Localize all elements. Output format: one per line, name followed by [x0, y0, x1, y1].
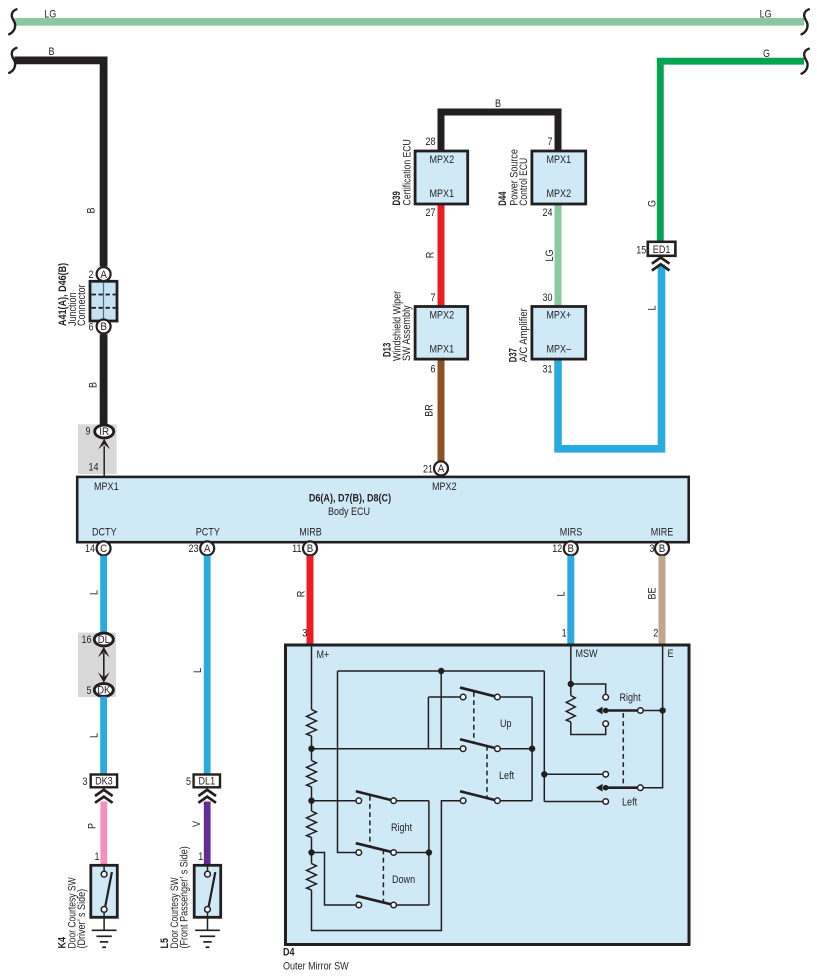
junction E bus	[659, 707, 665, 713]
svg-text:A: A	[438, 463, 445, 475]
double arrow between DL and DK	[98, 647, 110, 658]
svg-text:MPX+: MPX+	[546, 310, 571, 322]
dashed link Down	[382, 850, 384, 902]
wire top bus	[338, 670, 545, 672]
wire L (DCTY lower)	[100, 697, 107, 775]
svg-text:B: B	[568, 543, 575, 555]
contact Down left	[356, 902, 362, 908]
svg-text:30: 30	[543, 292, 553, 304]
wire LG (D44 pin 24 to D37 pin 30)	[555, 204, 562, 307]
svg-text:MPX1: MPX1	[547, 154, 572, 166]
svg-text:LG: LG	[544, 250, 556, 262]
svg-text:3: 3	[302, 628, 307, 640]
gray connector zone DL/DK	[78, 633, 116, 698]
svg-text:SW Assembly: SW Assembly	[401, 305, 413, 361]
svg-text:LG: LG	[760, 9, 772, 21]
svg-text:2: 2	[89, 269, 94, 281]
svg-text:11: 11	[292, 543, 301, 555]
pin circle 21 A (top)	[434, 461, 448, 475]
svg-text:MPX2: MPX2	[430, 310, 455, 322]
svg-text:R: R	[295, 591, 307, 598]
wire MSW lead	[570, 647, 572, 696]
svg-text:Down: Down	[392, 874, 415, 886]
wire Right block right bus	[397, 800, 429, 802]
junction top bus	[438, 668, 444, 674]
svg-text:E: E	[668, 648, 674, 660]
pin circle 12 B	[564, 541, 578, 555]
svg-text:D6(A), D7(B), D8(C): D6(A), D7(B), D8(C)	[309, 493, 391, 505]
svg-text:MIRE: MIRE	[651, 527, 674, 539]
switch lever Up row1	[460, 688, 497, 697]
contact Right row1 left	[356, 798, 362, 804]
break symbol left of LG wire	[9, 9, 16, 34]
arrow into IR	[98, 439, 110, 450]
svg-text:Left: Left	[499, 770, 514, 782]
svg-text:Body ECU: Body ECU	[328, 506, 370, 518]
contact Up row1 left	[460, 694, 466, 700]
svg-text:L: L	[89, 733, 101, 738]
svg-text:B: B	[100, 321, 107, 333]
wire bottom route to Left switch	[312, 801, 461, 931]
dashed link Left	[486, 746, 488, 798]
pin circle 14 C	[97, 541, 111, 555]
wire R (D39 pin 27 to D13 pin 7)	[438, 204, 445, 307]
contact Right row2 right	[391, 850, 397, 856]
junction MSW top	[568, 681, 574, 687]
switch lever Down row3	[356, 896, 394, 905]
svg-text:C: C	[100, 543, 107, 555]
switch K4 box	[91, 865, 118, 917]
svg-text:7: 7	[431, 292, 436, 304]
wire B (top left, black, turns down toward junction connector)	[15, 60, 104, 266]
ECU D39 box	[415, 151, 468, 204]
svg-text:L: L	[647, 306, 659, 311]
break symbol right of LG wire	[802, 9, 809, 34]
wire M+ lead	[311, 647, 313, 710]
svg-text:R: R	[424, 252, 436, 259]
chevrons below DK3	[95, 790, 113, 803]
svg-text:A/C Amplifier: A/C Amplifier	[518, 308, 530, 362]
contact Up row1 right	[495, 694, 501, 700]
svg-text:7: 7	[548, 136, 553, 148]
resistor (mirror drive 2)	[307, 761, 317, 788]
wire left drop to Right row2	[338, 671, 356, 853]
svg-text:5: 5	[186, 776, 191, 788]
wire Right row1 from resistor tap	[312, 800, 356, 802]
svg-text:MPX1: MPX1	[94, 481, 119, 493]
contact MSW left lower	[603, 799, 609, 805]
svg-text:DK: DK	[97, 685, 111, 697]
break symbol left of B wire	[9, 48, 16, 73]
wire MSW lever A to E bus	[643, 710, 663, 712]
svg-text:L: L	[89, 590, 101, 595]
svg-text:D44: D44	[497, 191, 509, 206]
junction Right block bus	[426, 849, 432, 855]
junction connector pin circle A	[97, 267, 111, 281]
switch assembly D4 Outer Mirror SW box	[286, 645, 690, 945]
wire BR (D13 pin 6 to Body ECU pin 21)	[438, 359, 445, 461]
svg-text:23: 23	[189, 543, 199, 555]
svg-text:MPX2: MPX2	[430, 154, 455, 166]
svg-text:14: 14	[85, 543, 95, 555]
svg-text:(Front Passenger’ s Side): (Front Passenger’ s Side)	[179, 846, 191, 948]
svg-text:6: 6	[431, 364, 436, 376]
switch lever Right row1	[356, 791, 394, 800]
wire Up upper-left stub	[428, 696, 460, 698]
svg-text:MSW: MSW	[576, 648, 599, 660]
svg-text:14: 14	[89, 462, 99, 474]
junction MSW left drop	[541, 771, 547, 777]
connector DK3 box	[91, 775, 117, 788]
wire MSW to upper contact	[571, 684, 606, 695]
svg-text:BE: BE	[646, 588, 658, 600]
svg-text:Connector: Connector	[76, 284, 88, 326]
svg-text:31: 31	[543, 364, 553, 376]
wire B (junction connector to IR)	[100, 334, 108, 425]
svg-text:MPX1: MPX1	[430, 188, 455, 200]
svg-text:IR: IR	[99, 426, 109, 438]
svg-text:28: 28	[426, 136, 436, 148]
svg-text:9: 9	[86, 426, 91, 438]
svg-text:L: L	[192, 668, 204, 673]
svg-text:B: B	[495, 98, 501, 110]
svg-text:12: 12	[552, 543, 562, 555]
switch lever MSW Right (horizontal with arrow)	[596, 707, 603, 715]
wire mid drop to MSW left contacts	[543, 671, 545, 802]
svg-text:MPX2: MPX2	[432, 481, 457, 493]
wire L (MIRS)	[567, 556, 574, 645]
svg-text:Outer Mirror SW: Outer Mirror SW	[283, 961, 349, 973]
wire between resistors	[311, 736, 313, 761]
svg-text:DCTY: DCTY	[92, 527, 117, 539]
wire B (bridge between D39 pin 28 and D44 pin 7)	[441, 112, 558, 151]
junction resistor tap 2	[308, 798, 314, 804]
svg-text:2: 2	[653, 628, 658, 640]
wire P	[100, 802, 107, 866]
wire L (DCTY upper)	[100, 556, 107, 634]
dashed link Up	[473, 692, 475, 743]
svg-text:1: 1	[198, 851, 203, 863]
svg-text:MPX2: MPX2	[547, 188, 572, 200]
wire V	[204, 802, 211, 866]
svg-text:B: B	[49, 46, 55, 58]
junction Up right bus	[529, 746, 535, 752]
svg-text:27: 27	[426, 207, 436, 219]
svg-text:DK3: DK3	[95, 776, 113, 788]
junction connector pin circle B	[97, 320, 111, 334]
wire row to Up lower contact	[312, 748, 461, 750]
svg-text:MIRB: MIRB	[299, 527, 322, 539]
connector DL1 box	[194, 775, 220, 788]
svg-text:PCTY: PCTY	[196, 527, 221, 539]
switch L5 box	[194, 865, 221, 917]
wire R (MIRB)	[307, 556, 314, 645]
svg-text:3: 3	[83, 776, 88, 788]
svg-text:6: 6	[89, 321, 94, 333]
resistor (mirror drive 3)	[307, 811, 317, 838]
svg-text:Control ECU: Control ECU	[518, 158, 530, 206]
contact Up row2 right	[495, 746, 501, 752]
resistor (mirror drive 1)	[307, 710, 317, 737]
chevrons below DL1	[198, 790, 216, 803]
wire L (D37 pin 31 down, right, up to ED1)	[558, 265, 662, 449]
svg-text:1: 1	[95, 851, 100, 863]
svg-text:DL1: DL1	[199, 776, 216, 788]
shield chevrons below ED1	[652, 258, 670, 271]
wire G (top right horizontal, turns down to ED1)	[660, 61, 804, 242]
contact MSW Left throw	[638, 785, 644, 791]
svg-text:L: L	[555, 592, 567, 597]
svg-text:21: 21	[423, 463, 433, 475]
svg-text:Certification ECU: Certification ECU	[401, 139, 413, 205]
switch lever Right row2	[356, 843, 394, 852]
ECU D44 box	[532, 151, 586, 204]
connector oval IR	[95, 425, 114, 438]
switch lever MSW Left (horizontal with arrow)	[596, 784, 603, 792]
connector ED1 box	[648, 242, 676, 256]
contact MSW upper	[603, 694, 609, 700]
pin circle 11 B	[303, 541, 317, 555]
svg-text:DL: DL	[98, 634, 110, 646]
switch lever Left row3	[460, 791, 497, 800]
pin circle 3 B	[655, 541, 669, 555]
svg-text:V: V	[191, 820, 203, 827]
wire bridge Up left contacts	[427, 697, 429, 749]
pin circle 23 A	[200, 541, 214, 555]
svg-text:B: B	[659, 543, 666, 555]
svg-text:Right: Right	[391, 822, 412, 834]
contact Down right	[391, 902, 397, 908]
gray connector zone IR	[78, 424, 117, 474]
wire Down row from resistor tap	[312, 853, 356, 906]
svg-text:24: 24	[543, 207, 553, 219]
connector oval DL	[94, 633, 113, 646]
svg-text:Up: Up	[500, 718, 512, 730]
junction resistor tap 3	[308, 849, 314, 855]
svg-text:B: B	[87, 382, 99, 388]
connector oval DK	[94, 684, 113, 697]
contact Left row3 right	[495, 798, 501, 804]
svg-text:16: 16	[82, 634, 92, 646]
svg-text:A: A	[100, 269, 107, 281]
svg-text:MPX1: MPX1	[430, 344, 455, 356]
contact MSW Right throw	[638, 708, 644, 714]
svg-text:Left: Left	[622, 797, 637, 809]
contact Up row2 left	[460, 746, 466, 752]
break symbol right of G wire	[802, 49, 809, 74]
svg-text:5: 5	[87, 685, 92, 697]
svg-text:MPX–: MPX–	[547, 344, 572, 356]
svg-text:B: B	[86, 208, 98, 214]
wire Up block right bus	[500, 696, 532, 698]
svg-text:15: 15	[636, 245, 646, 257]
junction connector A41(A) D46(B) box	[90, 281, 117, 321]
svg-text:Right: Right	[620, 692, 641, 704]
switch lever Up row2	[460, 739, 497, 748]
wire E lead	[643, 647, 663, 788]
ground K4	[92, 930, 117, 947]
svg-text:D4: D4	[283, 947, 295, 959]
contact MSW left upper	[603, 772, 609, 778]
svg-text:G: G	[763, 48, 770, 60]
contact Left row3 left	[460, 798, 466, 804]
Body ECU box D6(A), D7(B), D8(C)	[77, 477, 689, 542]
svg-text:ED1: ED1	[653, 244, 671, 256]
dashed link MSW	[622, 713, 624, 785]
contact Right row2 left	[356, 850, 362, 856]
svg-text:BR: BR	[424, 404, 436, 417]
svg-text:P: P	[87, 823, 99, 829]
svg-text:M+: M+	[317, 649, 330, 661]
svg-text:MIRS: MIRS	[560, 527, 583, 539]
svg-text:LG: LG	[44, 8, 56, 20]
svg-text:A: A	[204, 543, 211, 555]
wire MSW resistor bottom to lower contact	[571, 722, 606, 735]
svg-text:(Driver’ s Side): (Driver’ s Side)	[76, 889, 88, 949]
svg-text:B: B	[307, 543, 314, 555]
contact MSW lower	[603, 721, 609, 727]
svg-text:G: G	[647, 200, 659, 207]
ground L5	[195, 930, 220, 947]
wire L (PCTY)	[204, 556, 211, 775]
dashed link Right	[369, 796, 371, 846]
wire center drop	[440, 671, 442, 749]
resistor (mirror drive 4)	[307, 864, 317, 891]
wire LG (top horizontal)	[15, 18, 805, 26]
contact Right row1 right	[391, 798, 397, 804]
svg-text:1: 1	[562, 628, 567, 640]
wire BE (MIRE)	[659, 556, 666, 645]
svg-text:3: 3	[650, 543, 655, 555]
resistor (MSW sense)	[566, 696, 575, 723]
ECU D13 box	[415, 307, 468, 360]
pin 14 lead line	[103, 446, 105, 476]
junction resistor tap 1	[308, 746, 314, 752]
ECU D37 box	[532, 307, 586, 360]
